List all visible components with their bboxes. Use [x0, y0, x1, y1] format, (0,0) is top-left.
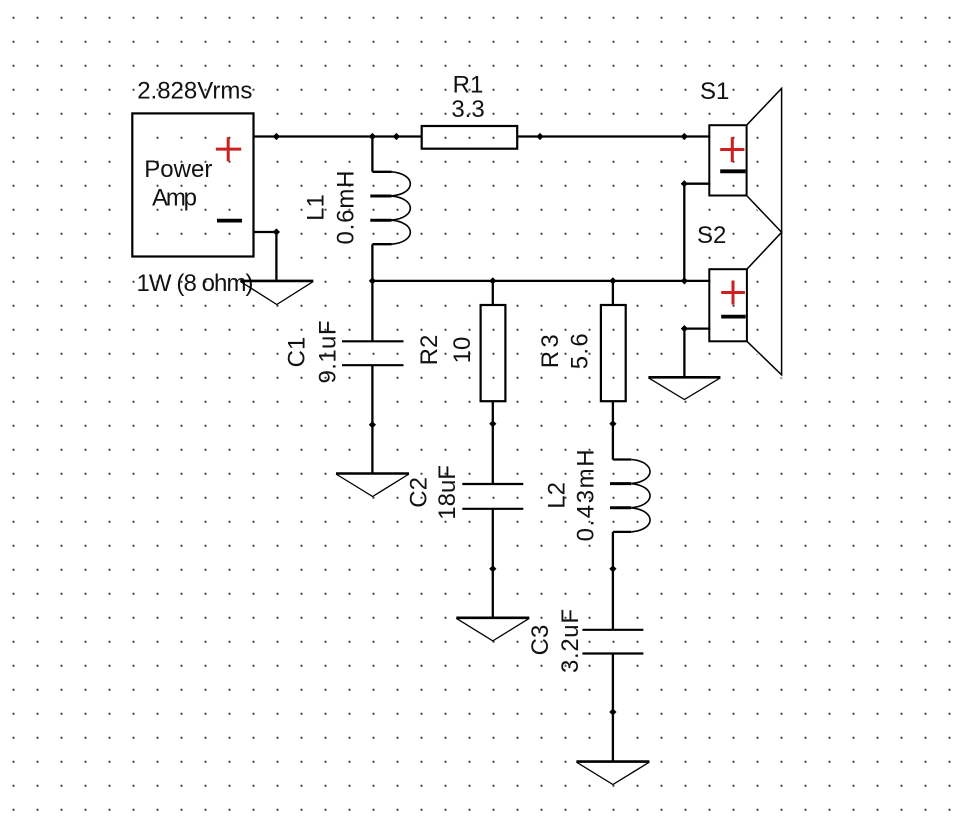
svg-text:Amp: Amp [152, 185, 197, 212]
power amp label "Power Amp" [144, 156, 212, 212]
svg-text:R1: R1 [453, 71, 484, 98]
capacitor C1 (plates) [342, 281, 404, 473]
capacitor C2 (plates) [462, 484, 523, 618]
junction dot: bottom bus at R2 [489, 277, 496, 284]
svg-text:C3: C3 [527, 625, 554, 656]
C2 value label 18uF [434, 465, 461, 520]
junction dot: S2- node [681, 325, 688, 332]
svg-text:2.828Vrms: 2.828Vrms [137, 77, 252, 104]
R2 value label 10 [449, 337, 476, 364]
C1 name label [284, 337, 311, 368]
junction dot: R1 right [536, 133, 543, 140]
R3 value label 5.6 [567, 333, 594, 369]
speaker S2 (body) [709, 232, 781, 375]
junction dot: PA- node [273, 228, 280, 235]
power amp plus terminal mark [216, 137, 241, 161]
S1 minus terminal mark [720, 169, 745, 173]
wire: R1 right to speaker S1+ [517, 135, 710, 137]
junction dot: bottom bus at S2+ [681, 277, 688, 284]
C3 name label [527, 625, 554, 656]
ground (below S2) [648, 377, 720, 399]
junction dot: C2 bottom [489, 565, 496, 572]
svg-text:3.2uF: 3.2uF [557, 609, 584, 673]
svg-text:C2: C2 [406, 477, 433, 508]
resistor R3 (body) [601, 281, 626, 460]
junction dot: L1 pin at bus [393, 133, 400, 140]
svg-text:0.6mH: 0.6mH [333, 171, 360, 245]
svg-text:5.6: 5.6 [567, 333, 594, 369]
R3 name label [537, 334, 564, 368]
junction dot: L2 bottom [609, 565, 616, 572]
junction dot: bottom bus at L1 [369, 277, 376, 284]
resistor R1 (body) [422, 126, 518, 149]
junction dot: L1 top at bus [369, 133, 376, 140]
junction dot: C1 bottom [369, 421, 376, 428]
L1 value label 0.6mH [333, 171, 360, 245]
S1 name label [700, 78, 729, 105]
svg-text:R3: R3 [537, 334, 564, 368]
svg-text:Power: Power [144, 156, 212, 183]
ground (power amp) [240, 281, 313, 305]
C3 value label 3.2uF [557, 609, 584, 673]
svg-text:S1: S1 [700, 78, 729, 105]
S1 plus terminal mark [720, 137, 744, 162]
inductor L1 (coil) [370, 137, 410, 282]
svg-text:18uF: 18uF [434, 465, 461, 520]
ground (below C3) [576, 762, 649, 785]
ground (below C2) [456, 618, 529, 641]
R2 name label [416, 335, 443, 366]
power amp value label "2.828Vrms" [137, 77, 252, 104]
svg-text:L1: L1 [303, 194, 330, 221]
resistor R2 (body) [481, 281, 506, 484]
R1 value label 3.3 [451, 96, 484, 123]
L1 name label [303, 194, 330, 221]
S2 name label [697, 222, 726, 249]
L2 value label 0.43mH [573, 449, 600, 541]
wire halos (mask grid dots under wires) [132, 88, 781, 761]
wire: PA+ to R1 left (top bus) [253, 135, 422, 137]
ground (below C1) [336, 474, 409, 497]
svg-text:10: 10 [449, 337, 476, 364]
svg-text:1W (8 ohm): 1W (8 ohm) [137, 270, 254, 297]
wire: PA- stub and drop to ground [253, 232, 277, 280]
junction dot: R3 bottom [609, 420, 616, 427]
svg-text:9.1uF: 9.1uF [315, 321, 342, 384]
capacitor C3 (plates) [582, 630, 643, 762]
S2 plus terminal mark [721, 281, 745, 305]
power amp note label "1W (8 ohm)" [137, 270, 254, 297]
speaker S1 (body) [709, 88, 781, 232]
power amp source PA1 (box) [132, 113, 253, 256]
junction dot: PA+ node [273, 133, 280, 140]
svg-text:L2: L2 [543, 482, 570, 509]
C1 value label 9.1uF [315, 321, 342, 384]
L2 name label [543, 482, 570, 509]
C2 name label [406, 477, 433, 508]
junction dot: S1+ node [681, 133, 688, 140]
svg-text:R2: R2 [416, 335, 443, 366]
wire: S2- stub and drop to ground [684, 329, 710, 378]
junction dot: R2 bottom [489, 420, 496, 427]
svg-text:S2: S2 [697, 222, 726, 249]
junction dot: S1- node [681, 180, 688, 187]
wire: S1- stub and drop to bottom bus [684, 184, 710, 281]
S2 minus terminal mark [721, 315, 746, 319]
svg-text:3.3: 3.3 [451, 96, 484, 123]
R1 name label [453, 71, 484, 98]
power amp minus terminal mark [217, 219, 242, 223]
junction dot: bottom bus at R3 [609, 277, 616, 284]
wire: bottom bus from L1 to S2+ [372, 280, 710, 282]
svg-text:C1: C1 [284, 337, 311, 368]
inductor L2 (coil) [610, 460, 650, 630]
junction dot: C3 bottom [609, 708, 616, 715]
